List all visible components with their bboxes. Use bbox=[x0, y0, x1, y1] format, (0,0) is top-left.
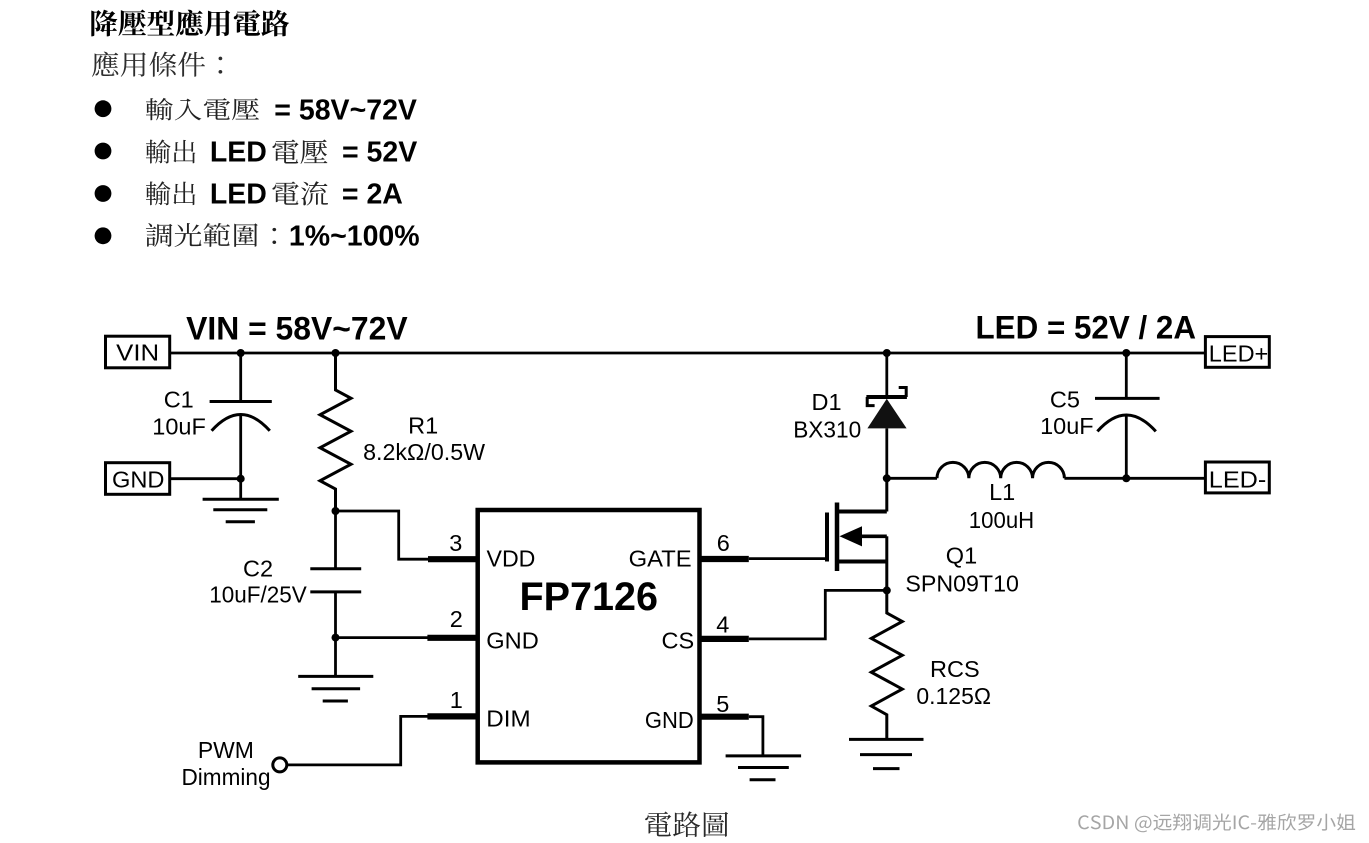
wire C5 top bbox=[1125, 353, 1128, 398]
caption 電路圖 bbox=[645, 811, 728, 837]
svg-text:BX310: BX310 bbox=[793, 416, 861, 442]
pin 5 stub bbox=[700, 714, 749, 720]
svg-text:LED-: LED- bbox=[1209, 467, 1267, 493]
wire C2 top bbox=[334, 511, 337, 569]
svg-text:Q1: Q1 bbox=[946, 543, 977, 569]
node VIN/C1 junction bbox=[237, 349, 245, 357]
node switch/D1/L1 junction bbox=[883, 474, 891, 482]
svg-text:GND: GND bbox=[486, 628, 539, 654]
svg-text:2: 2 bbox=[450, 606, 463, 632]
pin 1 stub bbox=[427, 713, 477, 719]
wire switch node to L1 bbox=[887, 477, 937, 480]
transistor Q1 bbox=[827, 478, 887, 590]
page title 降壓型應用電路 bbox=[91, 10, 289, 37]
pin 6 stub bbox=[700, 556, 749, 562]
pin 4 stub bbox=[700, 636, 749, 642]
svg-text:0.125Ω: 0.125Ω bbox=[916, 683, 991, 709]
wire D1 bottom bbox=[885, 428, 888, 478]
svg-text:SPN09T10: SPN09T10 bbox=[905, 570, 1019, 596]
svg-text:5: 5 bbox=[716, 691, 729, 717]
node GND/C1 junction bbox=[237, 475, 245, 483]
wire C1 top bbox=[239, 353, 242, 402]
node PWM input terminal bbox=[273, 758, 287, 772]
svg-text:C2: C2 bbox=[243, 555, 273, 581]
svg-text:VDD: VDD bbox=[487, 545, 536, 571]
wire PWM to DIM pin bbox=[287, 716, 430, 765]
wire L1 to LED- bbox=[1064, 477, 1205, 480]
node VIN/D1 junction bbox=[883, 349, 891, 357]
wire C2 to GND pin 2 bbox=[336, 636, 431, 639]
wire C2 bottom bbox=[334, 592, 337, 677]
wire GND terminal to C1 bbox=[170, 477, 241, 480]
svg-text:PWM: PWM bbox=[198, 737, 254, 763]
svg-text:FP7126: FP7126 bbox=[520, 575, 659, 619]
capacitor C1 bbox=[210, 402, 272, 431]
svg-text:LED = 52V / 2A: LED = 52V / 2A bbox=[976, 310, 1197, 346]
svg-text:Dimming: Dimming bbox=[182, 764, 271, 790]
svg-text:LED+: LED+ bbox=[1209, 341, 1269, 367]
terminal GND bbox=[106, 463, 170, 495]
ground below pin 5 bbox=[726, 756, 802, 780]
bullet 4 bbox=[95, 227, 112, 244]
pin 2 stub bbox=[427, 635, 477, 641]
ground below RCS bbox=[849, 739, 924, 768]
pin 3 stub bbox=[428, 556, 478, 562]
wire C5 bottom bbox=[1125, 415, 1128, 478]
svg-text:10uF: 10uF bbox=[1040, 413, 1094, 439]
svg-text:LED: LED bbox=[210, 178, 267, 210]
svg-text:R1: R1 bbox=[408, 413, 438, 439]
resistor R1 bbox=[320, 353, 351, 511]
op-amp U1 FP7126 body bbox=[478, 510, 700, 762]
svg-text:GATE: GATE bbox=[629, 545, 692, 571]
node C2/GND pin junction bbox=[332, 634, 340, 642]
svg-text:VIN: VIN bbox=[116, 339, 159, 365]
wire GND pin 5 to ground bbox=[749, 717, 763, 756]
bullet 2 bbox=[95, 143, 112, 160]
wire D1 top bbox=[885, 353, 888, 397]
terminal LED+ bbox=[1205, 337, 1269, 368]
svg-text:C5: C5 bbox=[1050, 387, 1080, 413]
svg-text:L1: L1 bbox=[989, 479, 1015, 505]
capacitor C2 bbox=[310, 569, 361, 592]
diode D1 schottky bbox=[866, 388, 907, 429]
svg-text:GND: GND bbox=[112, 466, 165, 492]
svg-text:3: 3 bbox=[449, 530, 462, 556]
node VIN/R1 junction bbox=[332, 349, 340, 357]
svg-text:C1: C1 bbox=[164, 386, 194, 412]
wire VIN rail bbox=[170, 352, 1206, 355]
wire R1 to VDD pin bbox=[336, 511, 431, 559]
svg-text:4: 4 bbox=[716, 611, 729, 637]
node L1/C5/LED- junction bbox=[1122, 474, 1130, 482]
svg-text:= 58V~72V: = 58V~72V bbox=[274, 94, 417, 126]
svg-text:1: 1 bbox=[450, 687, 463, 713]
wire GATE to Q1 gate bbox=[749, 557, 827, 560]
ground below C1 bbox=[203, 499, 279, 521]
svg-text:D1: D1 bbox=[812, 389, 842, 415]
node R1/C2/VDD junction bbox=[332, 507, 340, 515]
svg-text:10uF/25V: 10uF/25V bbox=[209, 582, 307, 608]
svg-text:= 2A: = 2A bbox=[342, 178, 403, 210]
wire CS pin to Q1 source bbox=[749, 590, 887, 639]
node LED+/C5 junction bbox=[1122, 349, 1130, 357]
svg-text:8.2kΩ/0.5W: 8.2kΩ/0.5W bbox=[363, 439, 486, 465]
subtitle 應用條件： bbox=[92, 52, 222, 77]
terminal LED- bbox=[1205, 462, 1269, 493]
svg-text:100uH: 100uH bbox=[969, 507, 1034, 533]
svg-text:VIN = 58V~72V: VIN = 58V~72V bbox=[186, 310, 408, 346]
svg-text:10uF: 10uF bbox=[152, 414, 206, 440]
inductor L1 bbox=[937, 462, 1064, 478]
terminal VIN bbox=[106, 336, 170, 368]
node Q1 source/RCS junction bbox=[883, 586, 891, 594]
svg-text:RCS: RCS bbox=[930, 656, 980, 682]
watermark CSDN bbox=[1078, 814, 1355, 833]
resistor RCS bbox=[871, 590, 902, 739]
svg-text:1%~100%: 1%~100% bbox=[289, 221, 420, 253]
svg-text:CS: CS bbox=[662, 628, 695, 654]
ground below C2 bbox=[298, 676, 373, 701]
wire C1 bottom bbox=[239, 415, 242, 500]
svg-text:LED: LED bbox=[210, 137, 267, 169]
bullet 3 bbox=[95, 185, 112, 202]
svg-text:= 52V: = 52V bbox=[342, 137, 417, 169]
svg-text:GND: GND bbox=[645, 707, 694, 733]
bullet 1 bbox=[95, 100, 112, 117]
svg-text:DIM: DIM bbox=[486, 705, 530, 731]
capacitor C5 bbox=[1095, 398, 1160, 431]
svg-text:6: 6 bbox=[717, 530, 730, 556]
